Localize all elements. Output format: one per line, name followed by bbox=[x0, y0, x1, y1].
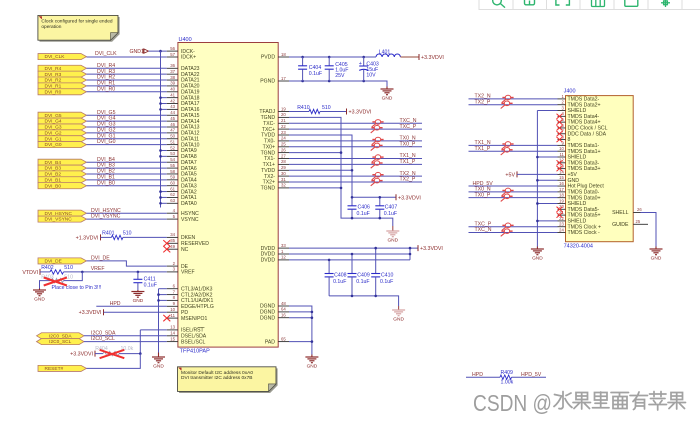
wire DATA17 tie bbox=[161, 103, 167, 105]
wire HPD bbox=[466, 376, 500, 378]
svg-text:GND: GND bbox=[387, 238, 398, 244]
wire RESET# bbox=[87, 354, 141, 369]
ground under C407 rail bbox=[392, 226, 394, 231]
power flag +3.3VDVI at TVDD bbox=[395, 194, 397, 200]
diff pair marker TXC_N bbox=[372, 120, 384, 128]
svg-text:1.00k: 1.00k bbox=[501, 380, 514, 386]
svg-text:36: 36 bbox=[170, 63, 175, 68]
svg-text:11: 11 bbox=[559, 152, 564, 157]
no-connect X on RESERVED pin bbox=[163, 240, 170, 246]
svg-text:47: 47 bbox=[170, 128, 175, 133]
svg-text:L401: L401 bbox=[379, 49, 391, 55]
junction C406 top bbox=[351, 196, 354, 199]
junction SHIELD pin22 bbox=[536, 220, 539, 223]
connector J400 body bbox=[566, 96, 634, 242]
junction ISEL/R404/RESET# bbox=[139, 352, 142, 355]
wire PGND rail bbox=[289, 81, 387, 87]
wire GND1 to IDCK- bbox=[149, 50, 167, 52]
svg-text:43: 43 bbox=[170, 104, 175, 109]
capacitor C411 0.1uF bbox=[137, 272, 139, 279]
DNI X over R404 bbox=[100, 350, 125, 358]
svg-text:Place close to Pin 3!!!: Place close to Pin 3!!! bbox=[52, 285, 102, 291]
svg-text:TX1_P: TX1_P bbox=[475, 146, 491, 152]
diff pair marker TX1_P bbox=[371, 161, 383, 169]
svg-text:VTDVI: VTDVI bbox=[22, 270, 38, 276]
wire SHIELD pin19 bbox=[537, 202, 557, 204]
svg-text:30: 30 bbox=[281, 171, 286, 176]
svg-text:DVI_G0: DVI_G0 bbox=[45, 142, 62, 148]
svg-text:Clock configured for single en: Clock configured for single ended bbox=[41, 18, 113, 24]
wire L401 to +3.3VDVI bbox=[400, 56, 419, 58]
wire TX2_P to J400 pin 2 bbox=[469, 104, 558, 106]
wire TGND pin26 bbox=[289, 152, 341, 154]
svg-text:GND: GND bbox=[532, 256, 543, 262]
svg-text:17: 17 bbox=[559, 187, 564, 192]
wire PD bbox=[104, 311, 167, 313]
junction PAD bbox=[311, 340, 314, 343]
op-amp U400 TFP410PAP body bbox=[178, 43, 278, 348]
no-connect X on NC pin bbox=[163, 246, 170, 252]
svg-text:DGND: DGND bbox=[260, 315, 275, 321]
svg-text:GND: GND bbox=[133, 298, 144, 304]
capacitor C406 0.1uF bbox=[351, 197, 353, 206]
junction C405 bottom bbox=[328, 80, 331, 83]
power flag VTDVI bbox=[39, 269, 41, 275]
svg-text:18: 18 bbox=[281, 52, 286, 57]
wire DATA9 tie bbox=[161, 149, 167, 151]
svg-text:0.1uF: 0.1uF bbox=[380, 279, 393, 285]
wire SHIELD pin22 bbox=[537, 220, 557, 222]
svg-text:BSEL/SCL: BSEL/SCL bbox=[181, 339, 206, 345]
svg-text:59: 59 bbox=[170, 175, 175, 180]
junction C404 top bbox=[301, 56, 304, 59]
resistor R409 1.00k bbox=[500, 375, 512, 379]
diff pair marker TX0_N bbox=[372, 137, 384, 145]
svg-text:510: 510 bbox=[123, 231, 132, 237]
wire DVI_G4 bbox=[87, 120, 167, 122]
wire SHIELD pin3 bbox=[537, 110, 557, 112]
wire CTL tie bbox=[159, 294, 167, 296]
port DVI_B1 bbox=[38, 177, 87, 183]
wire TXC_N to J400 pin 24 bbox=[469, 232, 558, 234]
wire CTL collect line to GND bbox=[158, 289, 160, 353]
svg-text:TX0_P: TX0_P bbox=[475, 192, 491, 198]
junction C405 top bbox=[328, 56, 331, 59]
note: I2C addresses bbox=[179, 368, 278, 393]
capacitor C403 15uF 10V (polarized) bbox=[363, 57, 365, 66]
junction TVDD29 bbox=[351, 169, 354, 172]
svg-text:R402: R402 bbox=[41, 265, 54, 271]
svg-text:16: 16 bbox=[281, 313, 286, 318]
power flag +3.3VDVI main bbox=[418, 54, 420, 60]
svg-text:62: 62 bbox=[170, 192, 175, 197]
svg-text:15: 15 bbox=[170, 336, 175, 341]
svg-text:35: 35 bbox=[170, 238, 175, 243]
svg-text:DVDD: DVDD bbox=[261, 258, 276, 264]
svg-text:19: 19 bbox=[559, 198, 564, 203]
svg-text:TX2_P: TX2_P bbox=[400, 177, 416, 183]
svg-text:+3.3VDVI: +3.3VDVI bbox=[349, 110, 372, 116]
svg-text:34: 34 bbox=[170, 232, 175, 237]
junction C409 bottom bbox=[351, 295, 354, 298]
wire HPD to EDGE/HTPLG bbox=[96, 305, 166, 307]
wire TX1_N bbox=[289, 158, 422, 160]
svg-text:HPD_5V: HPD_5V bbox=[521, 372, 542, 378]
port DVI_G0 bbox=[38, 142, 87, 148]
svg-text:56: 56 bbox=[170, 46, 175, 51]
wire HPD_5V bbox=[512, 376, 547, 378]
svg-text:46: 46 bbox=[170, 122, 175, 127]
svg-text:DVI_DE: DVI_DE bbox=[91, 256, 110, 262]
svg-text:GND: GND bbox=[382, 96, 393, 102]
no-connect X marks on J400 unused pins bbox=[557, 114, 563, 119]
wire unused DATA collect line bbox=[160, 51, 162, 207]
wire SHELL to GND bbox=[641, 213, 657, 247]
svg-text:DVI_CLK: DVI_CLK bbox=[95, 51, 117, 57]
wire TX0_N bbox=[289, 140, 422, 142]
wire DATA2 tie bbox=[161, 191, 167, 193]
svg-text:VREF: VREF bbox=[181, 270, 195, 276]
junction C407 bottom bbox=[379, 217, 382, 220]
port DVI_G5 bbox=[38, 112, 87, 118]
wire DVDD33 bbox=[289, 247, 418, 249]
svg-text:8: 8 bbox=[568, 137, 571, 143]
wire I2C0_SCL bbox=[84, 341, 167, 343]
wire DVI_R1 bbox=[87, 85, 167, 87]
wire DATA18 tie bbox=[161, 97, 167, 99]
svg-text:TX0_P: TX0_P bbox=[400, 142, 416, 148]
wire TXC_N bbox=[289, 122, 422, 124]
port DVI_R4 bbox=[38, 65, 87, 71]
svg-text:0.1uF: 0.1uF bbox=[333, 279, 346, 285]
wire DGND rail bbox=[289, 306, 312, 355]
wire DVI_R2 bbox=[87, 79, 167, 81]
svg-text:60: 60 bbox=[170, 181, 175, 186]
ground under PGND bbox=[386, 87, 388, 90]
wire TXC_P to J400 pin 23 bbox=[469, 226, 558, 228]
svg-text:DVI transmitter I2C address 0: DVI transmitter I2C address 0x7B bbox=[181, 375, 252, 381]
wire TX0_P to J400 pin 18 bbox=[469, 197, 558, 199]
svg-text:DVI_VSYNC: DVI_VSYNC bbox=[91, 214, 121, 220]
wire TVDD pin29 bbox=[289, 169, 352, 171]
svg-text:37: 37 bbox=[170, 69, 175, 74]
port DVI_R2 bbox=[38, 77, 87, 83]
capacitor C409 0.1uF bbox=[351, 254, 353, 274]
junction TGND26 bbox=[340, 151, 343, 154]
wire DATA0 tie bbox=[161, 202, 167, 204]
diff pair marker TX0_P bbox=[371, 143, 383, 151]
power flag +3.3VDVI at DVDD bbox=[417, 245, 419, 251]
svg-text:GND: GND bbox=[651, 256, 662, 262]
wire ISEL vertical bbox=[139, 330, 141, 354]
junction DATA0 bbox=[159, 202, 162, 205]
svg-text:55: 55 bbox=[170, 163, 175, 168]
power flag +5V bbox=[516, 171, 518, 177]
svg-text:+3.3VDVI: +3.3VDVI bbox=[70, 352, 93, 358]
svg-text:0.1uF: 0.1uF bbox=[309, 71, 322, 77]
svg-text:DVI_VSYNC: DVI_VSYNC bbox=[45, 217, 73, 223]
port DVI_CLK bbox=[38, 54, 87, 60]
wire DVI_G1 bbox=[87, 138, 167, 140]
svg-text:0.1uF: 0.1uF bbox=[356, 279, 369, 285]
power flag +1.3VDVI at DKEN bbox=[100, 234, 102, 240]
port I2C0_SDA bbox=[37, 333, 85, 339]
wire ISEL/RST bbox=[140, 329, 166, 331]
svg-text:27: 27 bbox=[281, 153, 286, 158]
DNI X over R403 bbox=[44, 278, 67, 286]
wire DVDD tie vertical bbox=[409, 248, 411, 260]
junction C408 top bbox=[328, 259, 331, 262]
wire DVI_R4 bbox=[87, 67, 167, 69]
svg-text:510: 510 bbox=[322, 105, 331, 111]
junction C404 bottom bbox=[301, 80, 304, 83]
capacitor C410 0.1uF bbox=[375, 248, 377, 273]
junction DVDD1 tie bbox=[409, 253, 412, 256]
svg-text:45: 45 bbox=[170, 116, 175, 121]
capacitor C408 0.1uF bbox=[328, 260, 330, 274]
svg-text:TFP410PAP: TFP410PAP bbox=[180, 349, 210, 355]
svg-text:TX2_P: TX2_P bbox=[475, 99, 491, 105]
diff pair marker TX1_N bbox=[502, 142, 514, 150]
wire I2C0_SDA bbox=[84, 335, 167, 337]
svg-text:DVI_DE: DVI_DE bbox=[45, 259, 62, 265]
junction DATA1 bbox=[159, 196, 162, 199]
diff pair marker TX1_N bbox=[372, 155, 384, 163]
svg-text:GND: GND bbox=[34, 297, 45, 303]
svg-text:58: 58 bbox=[170, 169, 175, 174]
svg-text:20: 20 bbox=[281, 112, 286, 117]
svg-text:0.1uF: 0.1uF bbox=[357, 211, 370, 217]
svg-text:TGND: TGND bbox=[261, 186, 276, 192]
port DVI_R1 bbox=[38, 83, 87, 89]
svg-text:C410: C410 bbox=[381, 273, 394, 279]
wire DGND16 bbox=[289, 317, 312, 319]
svg-text:53: 53 bbox=[170, 151, 175, 156]
wire TGND rail bbox=[289, 117, 393, 226]
port RESET# bbox=[38, 365, 87, 371]
wire DVI_VSYNC bbox=[87, 218, 167, 220]
wire DVI_DE bend bbox=[87, 261, 167, 266]
port DVI_G4 bbox=[38, 118, 87, 124]
ground under C411 bbox=[137, 290, 139, 292]
svg-text:VREF: VREF bbox=[91, 266, 105, 272]
junction DATA17 bbox=[159, 102, 162, 105]
junction SHIELD pin19 bbox=[536, 202, 539, 205]
svg-text:32: 32 bbox=[281, 183, 286, 188]
svg-text:26: 26 bbox=[637, 207, 642, 212]
svg-text:PGND: PGND bbox=[260, 79, 275, 85]
svg-text:RESET#: RESET# bbox=[45, 366, 64, 372]
port DVI_HSYNC bbox=[38, 210, 87, 216]
junction DATA16 bbox=[159, 108, 162, 111]
svg-text:CSDN @: CSDN @ bbox=[473, 390, 552, 416]
diff pair marker TX0_N bbox=[502, 188, 514, 196]
svg-text:22: 22 bbox=[281, 124, 286, 129]
wire DVI_B2 bbox=[87, 173, 167, 175]
junction C406 bottom bbox=[351, 217, 354, 220]
wire SHIELD vertical bbox=[536, 111, 538, 247]
svg-text:TX1_P: TX1_P bbox=[400, 159, 416, 165]
wire DVI_R3 bbox=[87, 73, 167, 75]
U400 left pins (stubs, numbers, names) bbox=[167, 46, 214, 345]
toolbar icon crosshair bbox=[661, 0, 670, 7]
wire DVI_R0 bbox=[87, 91, 167, 93]
svg-text:74320-4004: 74320-4004 bbox=[564, 244, 593, 250]
port DVI_G3 bbox=[38, 124, 87, 130]
svg-text:IDCK+: IDCK+ bbox=[181, 55, 196, 61]
svg-text:HPD: HPD bbox=[472, 372, 483, 378]
svg-text:16: 16 bbox=[559, 181, 564, 186]
port DVI_DE bbox=[38, 258, 87, 264]
junction DVDD33 tie bbox=[409, 247, 412, 250]
capacitor C407 0.1uF bbox=[379, 197, 381, 206]
resistor R401 510 bbox=[101, 236, 112, 238]
power flag +3.3VDVI at R404 bbox=[94, 351, 96, 357]
svg-text:I2C0_SCL: I2C0_SCL bbox=[91, 336, 115, 342]
wire SHIELD pin15 bbox=[537, 179, 557, 181]
junction C403 top bbox=[362, 56, 365, 59]
port DVI_B0 bbox=[38, 183, 87, 189]
svg-text:NC: NC bbox=[181, 247, 189, 253]
svg-text:64: 64 bbox=[281, 307, 286, 312]
svg-text:DVI_CLK: DVI_CLK bbox=[45, 54, 66, 60]
svg-text:DVI_G0: DVI_G0 bbox=[97, 139, 116, 145]
svg-text:10: 10 bbox=[559, 146, 564, 151]
ground under SHELL bbox=[655, 247, 657, 250]
port DVI_B2 bbox=[38, 171, 87, 177]
wire DVI_B3 bbox=[87, 167, 167, 169]
svg-text:Monitor Default I2C address 0x: Monitor Default I2C address 0xA0 bbox=[181, 370, 253, 376]
svg-text:+: + bbox=[359, 61, 362, 67]
wire VREF bbox=[64, 271, 167, 273]
note: clock configuration bbox=[40, 17, 120, 42]
svg-text:41: 41 bbox=[170, 92, 175, 97]
svg-text:65: 65 bbox=[281, 336, 286, 341]
port DVI_B3 bbox=[38, 165, 87, 171]
svg-text:25V: 25V bbox=[335, 73, 345, 79]
toolbar icon magnifier bbox=[493, 0, 505, 8]
svg-text:VSYNC: VSYNC bbox=[181, 217, 199, 223]
svg-text:GND1: GND1 bbox=[130, 49, 145, 55]
wire SHIELD pin11 bbox=[537, 156, 557, 158]
wire PVDD rail bbox=[289, 56, 376, 58]
junction SHIELD pin15 bbox=[536, 179, 539, 182]
svg-text:C408: C408 bbox=[334, 273, 347, 279]
svg-text:DDC Data / SDA: DDC Data / SDA bbox=[568, 131, 607, 137]
ground under DVDD caps bbox=[398, 306, 400, 310]
wire DVI_B1 bbox=[87, 179, 167, 181]
svg-text:33: 33 bbox=[281, 243, 286, 248]
svg-text:+3.3VDVI: +3.3VDVI bbox=[420, 246, 443, 252]
svg-text:61: 61 bbox=[170, 186, 175, 191]
svg-text:17: 17 bbox=[281, 76, 286, 81]
ground under SHIELD bbox=[536, 247, 538, 250]
junction CTL bbox=[157, 293, 160, 296]
diff pair marker TX2_P bbox=[501, 101, 513, 109]
svg-text:R410: R410 bbox=[297, 105, 310, 111]
wire DVI_CLK bbox=[87, 56, 167, 58]
wire DVI_B0 bbox=[87, 185, 167, 187]
svg-text:25: 25 bbox=[281, 142, 286, 147]
junction VREF/C411 bbox=[137, 271, 140, 274]
svg-text:U400: U400 bbox=[179, 37, 192, 43]
svg-text:12: 12 bbox=[281, 255, 286, 260]
resistor R402 510 bbox=[40, 271, 50, 273]
svg-text:24: 24 bbox=[559, 227, 564, 232]
svg-text:GUIDE: GUIDE bbox=[612, 222, 629, 228]
toolbar icon brackets bbox=[556, 0, 569, 5]
svg-text:DVI_R0: DVI_R0 bbox=[45, 89, 62, 95]
ground under R403 bbox=[39, 289, 41, 291]
svg-text:19: 19 bbox=[281, 106, 286, 111]
wire DATA1 tie bbox=[161, 196, 167, 198]
wire DVDD12 bbox=[289, 259, 410, 261]
diff pair marker TX0_P bbox=[501, 194, 513, 202]
svg-text:51: 51 bbox=[170, 139, 175, 144]
svg-text:52: 52 bbox=[170, 145, 175, 150]
wire DVI_B4 bbox=[87, 161, 167, 163]
capacitor C405 1.0uF 25V bbox=[328, 57, 330, 66]
wire TX2_P bbox=[289, 181, 422, 183]
port DVI_VSYNC bbox=[38, 216, 87, 222]
svg-text:GND: GND bbox=[153, 364, 164, 370]
port DVI_B4 bbox=[38, 159, 87, 165]
svg-text:38: 38 bbox=[170, 75, 175, 80]
svg-text:C406: C406 bbox=[358, 204, 371, 210]
wire TGND pin32 bbox=[289, 187, 341, 189]
U400 right pins (stubs, numbers, names) bbox=[259, 52, 289, 346]
wire DVI_G5 bbox=[87, 114, 167, 116]
svg-text:49: 49 bbox=[170, 244, 175, 249]
svg-text:13: 13 bbox=[170, 325, 175, 330]
wire TFADJ bbox=[289, 111, 309, 113]
overline on ISEL/RST bbox=[198, 327, 205, 329]
svg-text:28: 28 bbox=[281, 159, 286, 164]
wire TVDD rail bbox=[289, 135, 396, 197]
port I2C0_SCL bbox=[37, 339, 85, 345]
svg-text:31: 31 bbox=[281, 177, 286, 182]
wire CTL tie bbox=[159, 288, 167, 290]
wire DVI_HSYNC bbox=[87, 212, 167, 214]
svg-text:18: 18 bbox=[559, 193, 564, 198]
svg-text:R401: R401 bbox=[102, 231, 115, 237]
svg-text:0.1uF: 0.1uF bbox=[384, 211, 397, 217]
diff pair marker TX1_P bbox=[501, 147, 513, 155]
junction C410 top bbox=[374, 247, 377, 250]
capacitor C404 0.1uF bbox=[302, 57, 304, 66]
wire TX0_P bbox=[289, 146, 422, 148]
junction C407 top bbox=[379, 196, 382, 199]
wire TX2_N bbox=[289, 175, 422, 177]
svg-text:SHELL: SHELL bbox=[612, 210, 629, 216]
svg-text:510: 510 bbox=[64, 265, 73, 271]
svg-text:0.1uF: 0.1uF bbox=[144, 282, 157, 288]
junction DGND16 bbox=[311, 316, 314, 319]
ground under CTL collect line bbox=[158, 353, 160, 358]
svg-text:14: 14 bbox=[170, 331, 175, 336]
svg-text:54: 54 bbox=[170, 157, 175, 162]
port DVI_G1 bbox=[38, 136, 87, 142]
junction C403 bottom bbox=[362, 80, 365, 83]
resistor R404 10.0k (DNI) bbox=[95, 353, 103, 355]
diff pair marker TXC_P bbox=[502, 223, 514, 231]
svg-text:29: 29 bbox=[281, 165, 286, 170]
wire TX1_N to J400 pin 9 bbox=[469, 144, 558, 146]
wire DKEN bbox=[123, 236, 167, 238]
diff pair marker TX2_N bbox=[372, 172, 384, 180]
toolbar row (browser UI fragment) bbox=[479, 0, 700, 10]
svg-text:HPD: HPD bbox=[110, 301, 121, 307]
